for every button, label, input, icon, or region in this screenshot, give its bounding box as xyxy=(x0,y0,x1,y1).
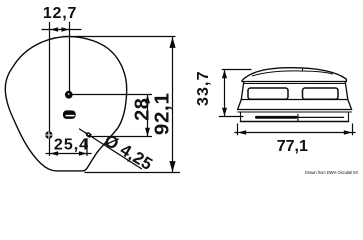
svg-text:12,7: 12,7 xyxy=(43,5,77,22)
svg-text:Drawn from DWH Osculati Srl: Drawn from DWH Osculati Srl xyxy=(305,170,358,175)
svg-text:33,7: 33,7 xyxy=(195,70,212,106)
svg-text:25,4: 25,4 xyxy=(54,136,89,153)
svg-text:77,1: 77,1 xyxy=(277,138,308,155)
svg-text:92,1: 92,1 xyxy=(151,92,174,135)
